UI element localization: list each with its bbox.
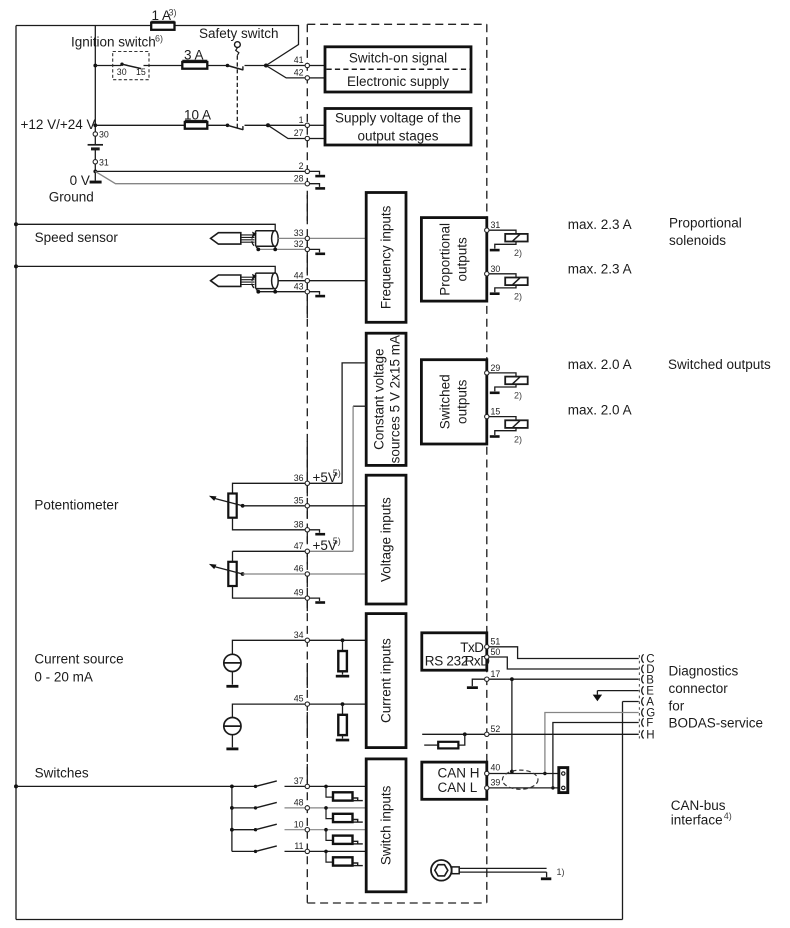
bolt shank connector [452,867,459,874]
ground at pin 17 [472,679,484,686]
wire sensor 2 return to pin 43 [258,291,305,293]
svg-text:for: for [669,698,685,713]
wire CS1 to pin 34 [232,640,304,654]
wire CS2 to pin 45 [232,704,304,717]
fuse F1 1A [151,23,174,30]
twisted pair dashed loop [502,770,538,789]
wire pin 42 into block [310,77,325,79]
ground at pin 49 [310,598,320,601]
svg-text:RS 232: RS 232 [425,653,468,668]
resistor input R3 [342,640,344,651]
wire switches feed [16,785,256,787]
node J2 [266,123,270,127]
svg-text:50: 50 [491,647,501,657]
node sensor 1 coil bottom [274,246,276,249]
pin 40 [485,771,489,775]
wire pin 41 into block [310,65,325,67]
wire pin 11 to switch inputs [310,850,366,852]
potentiometer R1 body [228,494,236,518]
svg-text:44: 44 [294,270,304,280]
wire pin 46 to voltage inputs (gray) [310,573,366,575]
wire connector A from bottom rail [623,701,639,703]
wire top supply rail with corner to pins 41/42 junction [175,26,299,66]
wire constant voltage source stub 2 [353,405,366,407]
wire battery positive riser [94,26,96,145]
svg-text:51: 51 [491,637,501,647]
pin 33 [305,236,309,240]
potentiometer R2 wiper arrow [213,566,243,574]
bolt shaft twin leads [459,867,546,869]
pin 46 [305,572,309,576]
wire J1 to pin 41 [266,65,305,67]
potentiometer R2 body [228,562,236,586]
wire pin 51 to connector C [489,647,638,659]
wire top rail left of fuse F1 [16,25,151,27]
wire fuse F3 to safety switch S2b [207,124,227,126]
node sensor 2 coil bottom [274,289,276,292]
node switches feed on left rail [14,784,18,788]
svg-text:41: 41 [294,55,304,65]
block Switched outputs [421,360,486,444]
wire S2b to junction J2 [245,124,269,126]
wire CS2 bottom to ground [231,735,233,748]
svg-text:Current source: Current source [34,652,123,667]
svg-text:27: 27 [294,128,304,138]
ignition switch blade and contacts [120,62,123,65]
bolt ground [546,872,548,877]
grounding bolt symbol [431,860,452,881]
wire sensor 1 supply [16,224,275,231]
node battery zero volt [93,170,97,174]
speed sensor 1 coil [256,231,275,247]
pin 2 [305,169,309,173]
svg-text:0 - 20 mA: 0 - 20 mA [34,670,93,685]
svg-text:output stages: output stages [357,129,438,144]
pin 17 [485,677,489,681]
underline of 1 A label [151,20,175,22]
wire to ignition switch [95,65,121,67]
svg-text:2): 2) [514,391,522,401]
block CAN H / CAN L [422,762,487,799]
pin 10 [305,828,309,832]
pin 39 [485,786,489,790]
pin 47 [305,549,309,553]
speed sensor 2 coil [256,273,275,289]
current source CS2 [224,718,241,735]
svg-text:28: 28 [294,173,304,183]
svg-text:Switches: Switches [35,766,89,781]
svg-text:15: 15 [491,407,501,417]
resistor input R4 [342,704,344,715]
block Supply voltage of the output stages [325,109,471,146]
pin 30 [485,272,489,276]
pin 30 battery terminal [93,132,97,136]
speed sensor 2 probe body [211,275,241,286]
pin 41 [305,63,309,67]
safety switch contact S2b [226,124,230,128]
pin 35 [305,504,309,508]
wire connector G to CAN H (gray) [545,713,639,774]
svg-text:36: 36 [294,473,304,483]
debounce symbol pin 11 [324,850,328,854]
wire zero volt diagonal to pin 28 (gray) [95,171,304,183]
wire pin 37 to switch inputs [310,785,366,787]
svg-text:BODAS-service: BODAS-service [669,715,764,730]
svg-text:Switched outputs: Switched outputs [668,357,771,372]
pin 15 [485,414,489,418]
wire zero volt to pin 2 [95,170,304,172]
svg-text:17: 17 [491,669,501,679]
svg-text:32: 32 [294,239,304,249]
svg-text:connector: connector [669,681,729,696]
svg-text:Switch-on signal: Switch-on signal [349,51,447,66]
svg-text:Frequency inputs: Frequency inputs [379,205,394,309]
wire connector F to CAN L [553,723,639,788]
svg-text:Supply voltage of the: Supply voltage of the [335,111,461,126]
wire left border supply rail [15,26,17,920]
svg-text:sources 5 V 2x15 mA: sources 5 V 2x15 mA [388,335,403,463]
CAN connector block [559,768,568,793]
svg-text:max. 2.3 A: max. 2.3 A [568,262,632,277]
svg-text:max. 2.3 A: max. 2.3 A [568,217,632,232]
svg-text:CAN-bus: CAN-bus [671,798,726,813]
switch S4 to pin 48 [232,807,256,809]
wire J2 to pin 27 [268,125,305,138]
speed sensor 2 adjust arrow arc [252,277,258,291]
svg-text:2): 2) [514,248,522,258]
solenoid at pin 29 [489,373,516,377]
pin 48 [305,806,309,810]
wire sensor 1 signal to pin 33 (gray) [278,237,305,239]
svg-text:2): 2) [514,292,522,302]
svg-text:Switched: Switched [438,374,453,429]
resistor CAN terminator [458,734,464,745]
svg-text:Potentiometer: Potentiometer [34,498,119,513]
svg-text:2): 2) [514,434,522,444]
svg-text:45: 45 [294,694,304,704]
pin 50 [485,655,489,659]
wire constant voltage source stub 1 to pin 36 [342,363,366,483]
wire sensor 1 return to pin 32 (gray) [258,248,305,250]
svg-text:1): 1) [557,867,565,877]
block Switch-on signal / Electronic supply [325,47,471,92]
debounce symbol pin 10 [324,828,328,832]
pin 11 [305,849,309,853]
svg-text:Switch inputs: Switch inputs [379,785,394,865]
block Voltage inputs [366,475,406,604]
safety switch mechanical dashed link [236,56,238,129]
svg-text:30: 30 [99,130,109,140]
current source CS1 [224,654,241,671]
svg-text:H: H [646,729,654,741]
svg-text:4): 4) [724,811,732,821]
svg-text:outputs: outputs [455,379,470,424]
node battery plus [93,123,97,127]
ground bar below battery [90,181,102,184]
pin 44 [305,279,309,283]
wire S2a to junction J1 [245,65,267,67]
svg-text:max. 2.0 A: max. 2.0 A [568,357,632,372]
fuse F3 10A [185,122,208,129]
wire R2 wiper to pin 46 (gray) [243,573,305,575]
svg-text:2: 2 [299,161,304,171]
svg-text:interface: interface [671,813,723,828]
svg-text:Diagnostics: Diagnostics [669,663,739,678]
svg-text:34: 34 [294,630,304,640]
node CAN shield tap [510,677,514,681]
svg-text:0 V: 0 V [70,173,90,188]
speed sensor 1 adjust arrow arc [252,234,258,248]
svg-text:29: 29 [491,363,501,373]
switch S6 to pin 11 [232,850,256,852]
pin 38 [305,528,309,532]
svg-text:48: 48 [294,798,304,808]
wire sensor 2 signal to pin 44 [278,280,305,282]
svg-text:47: 47 [294,541,304,551]
safety switch contact S2a [226,64,230,68]
svg-text:39: 39 [491,778,501,788]
wire switch distribution riser [231,786,233,851]
svg-text:31: 31 [99,157,109,167]
svg-text:46: 46 [294,564,304,574]
pin 51 [485,645,489,649]
block Current inputs [366,614,406,748]
wire battery plus to fuse F3 [95,124,185,126]
svg-text:Safety switch: Safety switch [199,26,279,41]
svg-text:CAN L: CAN L [438,780,478,795]
wire R1 wiper to pin 35 [243,505,305,507]
safety switch handle [235,42,241,48]
svg-text:52: 52 [491,724,501,734]
ground at pin 32 [310,249,320,252]
wire pin 33 to frequency inputs (gray) [310,237,366,239]
svg-text:Speed sensor: Speed sensor [35,230,119,245]
svg-text:Current inputs: Current inputs [379,638,394,723]
wire stub 2 riser to pin 47 (gray) [352,406,354,551]
wire pin 10 to switch inputs (gray) [310,829,366,831]
pin 29 [485,371,489,375]
wire pin 52 to connector H [489,733,638,735]
fuse F2 3A [182,62,207,69]
svg-text:37: 37 [294,776,304,786]
wire right border rail up to diagnostics pin A [622,702,624,920]
wire ignition switch to fuse F2 [144,65,183,67]
svg-text:CAN H: CAN H [438,766,480,781]
svg-text:3): 3) [169,8,177,18]
wire battery negative [94,149,96,181]
svg-text:35: 35 [294,495,304,505]
switch S5 to pin 10 [232,829,256,831]
solenoid at pin 31 [489,230,516,234]
wire connector E ground [597,690,638,692]
controller dashed boundary [307,24,487,903]
debounce symbol pin 48 [324,806,328,810]
ground at pin 38 [310,530,320,533]
pin 49 [305,596,309,600]
svg-text:F: F [646,718,653,730]
wire CAN L to connector block [489,787,559,789]
debounce symbol pin 37 [324,785,328,789]
ignition switch S1 dashed enclosure [113,52,149,80]
svg-text:Ground: Ground [49,190,94,205]
wire pin stub tails on boundary (voltage area) [306,486,308,497]
wire CS1 bottom to ground [231,672,233,685]
svg-text:Proportional: Proportional [438,223,453,296]
wire solid segments on boundary near sensor pins [306,238,308,273]
wire pin 52 stub left [422,733,484,735]
wire pin 27 into block [310,138,325,140]
pin 45 [305,702,309,706]
wire pin 45 to current inputs [310,703,366,705]
svg-text:11: 11 [294,841,303,851]
wire bottom border rail [16,919,623,921]
svg-text:40: 40 [491,763,501,773]
ground at pin 28 [310,184,320,187]
block Frequency inputs [366,193,406,323]
svg-text:max. 2.0 A: max. 2.0 A [568,403,632,418]
pin 37 [305,784,309,788]
wire J2 to pin 1 [268,124,305,126]
pin 28 [305,182,309,186]
svg-text:outputs: outputs [455,237,470,282]
pin 31 battery terminal [93,160,97,164]
wire pin 36 supply to potentiometer R1 [233,483,343,493]
svg-text:49: 49 [294,588,304,598]
node input resistor 2 tap [341,702,345,706]
ground at pin 43 [310,292,320,295]
wire pin 48 to switch inputs (gray) [310,807,366,809]
svg-text:38: 38 [294,519,304,529]
svg-text:15: 15 [136,67,146,77]
speed sensor 1 probe body [211,233,241,244]
pin 43 [305,290,309,294]
ground at pin 2 [310,171,320,174]
wire pin 47 to riser (gray) [310,550,353,552]
wire CAN H to connector block [489,773,559,775]
battery B1 plates [88,144,103,146]
node input resistor 1 tap [341,638,345,642]
wire pin 50 to connector D [489,657,638,669]
node J1 [264,64,268,68]
svg-text:5): 5) [333,468,341,478]
speed sensor 2 neck [241,277,255,284]
wire J1 to pin 42 [266,66,305,78]
wire pin 17 to connector B [489,678,638,680]
pin 1 [305,123,309,127]
svg-text:5): 5) [333,536,341,546]
svg-text:43: 43 [294,281,304,291]
node sensor 2 supply on left rail [14,264,18,268]
svg-text:6): 6) [155,34,163,44]
solenoid at pin 15 [489,417,516,421]
svg-text:42: 42 [294,68,304,78]
svg-text:33: 33 [294,228,304,238]
wire shield riser down to CAN H [511,679,513,773]
svg-text:B: B [646,674,654,686]
svg-text:Electronic supply: Electronic supply [347,74,449,89]
svg-text:Ignition switch: Ignition switch [71,35,156,50]
wire pin 44 to frequency inputs [310,280,366,282]
solenoid at pin 30 [489,274,516,278]
pin 52 [485,732,489,736]
wire R2 bottom to pin 49 [233,586,305,598]
pin 42 [305,76,309,80]
wire pin 34 to current inputs [310,639,366,641]
wire pin 35 to voltage inputs [310,505,366,507]
svg-text:Proportional: Proportional [669,216,742,231]
svg-text:1: 1 [299,115,304,125]
block Switch inputs [366,759,406,892]
pin 31 [485,228,489,232]
svg-text:30: 30 [117,67,127,77]
diagnostics connector dashed spine [638,655,640,739]
wire pin 47 supply to potentiometer R2 [233,550,305,552]
node ignition branch [93,64,97,68]
pin 36 [305,481,309,485]
wire fuse F2 to safety switch S2a [207,65,227,67]
diagnostics connector pin arcs C D B E A G F H [642,654,644,738]
pin 34 [305,638,309,642]
svg-text:Voltage inputs: Voltage inputs [379,497,394,582]
svg-text:solenoids: solenoids [669,233,726,248]
block RS 232 [422,633,487,670]
block Proportional outputs [421,218,486,302]
node sensor 1 supply on left rail [14,222,18,226]
speed sensor 1 neck [241,235,255,242]
svg-text:+12 V/+24 V: +12 V/+24 V [21,117,96,132]
pin 32 [305,247,309,251]
svg-text:30: 30 [491,264,501,274]
node terminator tap [463,732,467,736]
wire pin 1 into block [310,124,325,126]
block Constant voltage sources [366,333,406,465]
svg-text:10: 10 [294,819,304,829]
pin 27 [305,136,309,140]
svg-text:31: 31 [491,220,501,230]
wire R1 bottom to pin 38 [233,518,305,530]
svg-text:Constant voltage: Constant voltage [372,349,387,450]
wire sensor 2 supply [16,266,275,273]
diagnostics connector pin letters [646,654,655,742]
potentiometer R1 wiper arrow [213,498,243,506]
switch S3 to pin 37 [254,785,257,788]
